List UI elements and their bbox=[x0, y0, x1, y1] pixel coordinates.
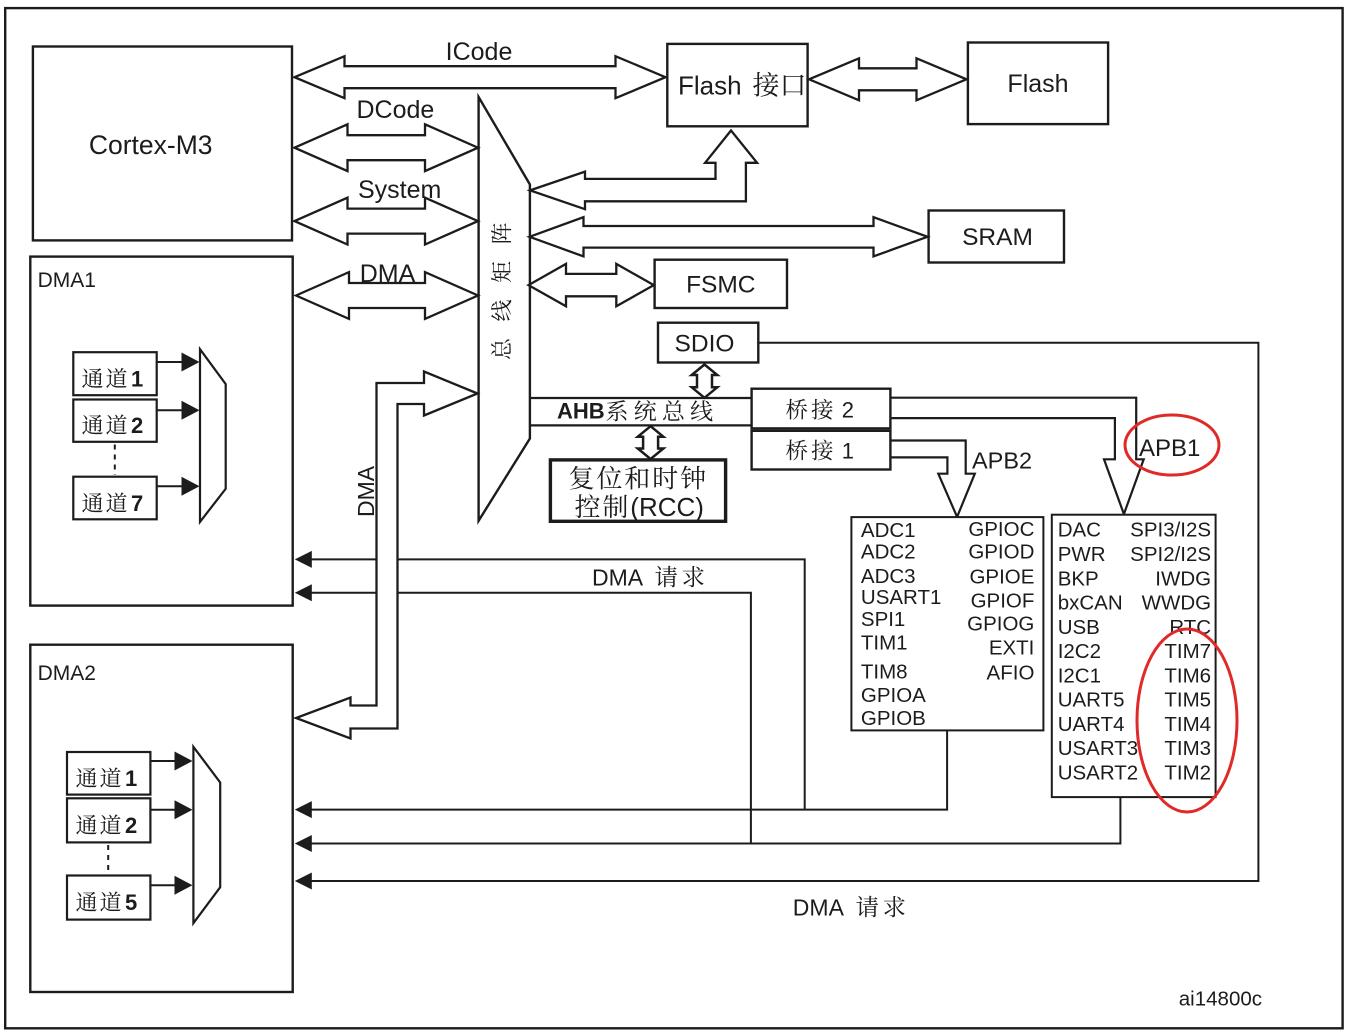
box APB2 peripherals bbox=[851, 517, 1043, 730]
arrow bent DMA bus matrix down to DMA2 bbox=[296, 372, 478, 739]
wire channel2 to mux DMA2 bbox=[150, 809, 175, 811]
box channel1 DMA1 bbox=[73, 352, 156, 395]
svg-text:Cortex-M3: Cortex-M3 bbox=[89, 130, 213, 160]
arrow bus matrix to SRAM bbox=[530, 217, 928, 256]
svg-text:TIM4: TIM4 bbox=[1164, 713, 1211, 736]
label DMA request lower bbox=[793, 895, 845, 921]
svg-text:GPIOE: GPIOE bbox=[969, 565, 1034, 588]
arrowhead into DMA1 line1 bbox=[295, 551, 312, 568]
svg-text:5: 5 bbox=[125, 890, 137, 915]
wire - APB2 peripherals DMA request to DMA2 bbox=[298, 730, 947, 809]
svg-text:DMA: DMA bbox=[360, 260, 416, 288]
svg-text:USART3: USART3 bbox=[1058, 737, 1139, 760]
arrowhead into DMA1 line2 bbox=[295, 584, 312, 601]
box bridge1 bbox=[752, 431, 891, 470]
arrow Flash interface to Flash bbox=[809, 58, 967, 100]
dashed line between DMA2 channels bbox=[107, 845, 109, 874]
svg-text:USART2: USART2 bbox=[1058, 762, 1139, 785]
wire channel2 to mux bbox=[157, 409, 182, 411]
box channel7 DMA1 bbox=[73, 477, 156, 520]
svg-text:TIM5: TIM5 bbox=[1164, 689, 1211, 712]
svg-text:DMA: DMA bbox=[353, 465, 379, 517]
bus matrix trapezoid bbox=[479, 97, 530, 521]
svg-text:System: System bbox=[358, 176, 441, 204]
arrowhead into DMA2 line1 bbox=[295, 801, 312, 818]
APB2 right column labels bbox=[967, 518, 1034, 685]
box Flash bbox=[968, 43, 1108, 125]
arrow vertical SDIO to AHB bus bbox=[692, 365, 718, 398]
arrow vertical AHB bus to RCC bbox=[638, 426, 664, 459]
APB1 left column labels bbox=[1058, 519, 1139, 785]
wire channel1 to mux DMA2 bbox=[150, 760, 175, 762]
arrowhead into DMA2 line3 bbox=[295, 873, 312, 890]
label DMA request upper bbox=[592, 565, 644, 591]
arrowhead into DMA2 line2 bbox=[295, 835, 312, 852]
box channel5 DMA2 bbox=[67, 876, 150, 920]
mux trapezoid DMA2 bbox=[193, 747, 220, 923]
svg-text:APB2: APB2 bbox=[972, 448, 1032, 474]
svg-text:SPI2/I2S: SPI2/I2S bbox=[1130, 543, 1211, 566]
dashed line between DMA1 channels bbox=[114, 445, 116, 476]
svg-text:TIM7: TIM7 bbox=[1164, 640, 1211, 663]
svg-text:WWDG: WWDG bbox=[1142, 592, 1211, 615]
wire channel5 to mux DMA2 bbox=[150, 884, 175, 886]
svg-text:AHB: AHB bbox=[557, 399, 605, 424]
wire - branch up to DMA1 request line 1 bbox=[298, 559, 805, 809]
label DMA vertical bbox=[353, 465, 379, 517]
arrow System Cortex to bus matrix bbox=[295, 198, 479, 245]
svg-text:2: 2 bbox=[131, 413, 143, 438]
svg-text:DMA1: DMA1 bbox=[38, 269, 96, 292]
svg-text:ADC2: ADC2 bbox=[861, 541, 916, 564]
box DMA1 bbox=[30, 257, 292, 606]
arrow ICode Cortex to Flash interface bbox=[295, 56, 666, 98]
APB2 left column labels bbox=[861, 519, 942, 730]
svg-text:BKP: BKP bbox=[1058, 567, 1099, 590]
wire - branch up to DMA1 request line 2 bbox=[298, 593, 751, 844]
wire - APB1 peripherals DMA request to DMA2 bbox=[298, 797, 1120, 843]
wire channel1 to mux bbox=[157, 361, 182, 363]
box FSMC bbox=[655, 260, 787, 308]
svg-text:USART1: USART1 bbox=[861, 586, 942, 609]
box RCC reset and clock control bbox=[550, 460, 725, 521]
svg-text:GPIOC: GPIOC bbox=[968, 518, 1034, 541]
box SRAM bbox=[929, 211, 1064, 263]
svg-text:I2C1: I2C1 bbox=[1058, 664, 1101, 687]
svg-text:DMA: DMA bbox=[793, 895, 845, 921]
box SDIO bbox=[658, 323, 758, 363]
svg-text:ai14800c: ai14800c bbox=[1179, 988, 1262, 1011]
svg-text:Flash: Flash bbox=[1007, 70, 1068, 98]
wire - SDIO to DMA2 request line bbox=[298, 343, 1258, 881]
svg-text:ADC1: ADC1 bbox=[861, 519, 916, 542]
svg-text:GPIOA: GPIOA bbox=[861, 684, 926, 707]
svg-text:TIM2: TIM2 bbox=[1164, 762, 1211, 785]
box bridge2 bbox=[752, 389, 891, 429]
svg-text:UART5: UART5 bbox=[1058, 689, 1125, 712]
svg-text:(RCC): (RCC) bbox=[630, 492, 704, 522]
svg-text:ICode: ICode bbox=[446, 38, 513, 66]
svg-text:TIM8: TIM8 bbox=[861, 661, 908, 684]
svg-text:FSMC: FSMC bbox=[686, 272, 755, 299]
svg-text:SRAM: SRAM bbox=[962, 224, 1033, 251]
svg-text:GPIOG: GPIOG bbox=[967, 612, 1034, 635]
svg-text:ADC3: ADC3 bbox=[861, 565, 916, 588]
svg-text:2: 2 bbox=[125, 813, 137, 838]
label bus matrix vertical bbox=[491, 223, 511, 359]
arrow bus matrix to FSMC bbox=[529, 264, 654, 306]
wire channel7 to mux bbox=[157, 485, 182, 487]
arrow bent bus matrix up to Flash interface bbox=[530, 131, 757, 210]
svg-text:DMA: DMA bbox=[592, 565, 644, 591]
svg-text:APB1: APB1 bbox=[1139, 435, 1200, 462]
svg-text:bxCAN: bxCAN bbox=[1058, 592, 1123, 615]
svg-text:1: 1 bbox=[131, 367, 143, 392]
arrow DCode Cortex to bus matrix bbox=[295, 124, 479, 171]
svg-text:TIM3: TIM3 bbox=[1164, 737, 1211, 760]
svg-text:PWR: PWR bbox=[1058, 543, 1106, 566]
wire+funnel arrow APB1 from bridge2 bbox=[890, 398, 1143, 514]
red ellipse around APB1 label bbox=[1125, 415, 1219, 475]
svg-text:SDIO: SDIO bbox=[675, 331, 735, 358]
box channel2 DMA1 bbox=[73, 400, 156, 442]
box channel1 DMA2 bbox=[67, 752, 150, 795]
box channel2 DMA2 bbox=[67, 798, 150, 842]
svg-text:IWDG: IWDG bbox=[1155, 567, 1211, 590]
arrow DMA DMA1 to bus matrix bbox=[296, 272, 478, 319]
APB1 right column labels bbox=[1130, 519, 1211, 785]
svg-text:USB: USB bbox=[1058, 616, 1100, 639]
svg-text:AFIO: AFIO bbox=[987, 661, 1035, 684]
svg-text:GPIOD: GPIOD bbox=[968, 541, 1034, 564]
svg-text:EXTI: EXTI bbox=[989, 637, 1035, 660]
svg-text:SPI3/I2S: SPI3/I2S bbox=[1130, 519, 1211, 542]
wire+funnel arrow APB2 from bridge1 bbox=[890, 441, 974, 517]
svg-text:GPIOF: GPIOF bbox=[971, 590, 1035, 613]
svg-text:DAC: DAC bbox=[1058, 519, 1101, 542]
svg-text:7: 7 bbox=[131, 491, 143, 516]
box DMA2 bbox=[30, 645, 292, 992]
svg-text:2: 2 bbox=[842, 398, 854, 423]
svg-text:DCode: DCode bbox=[357, 96, 435, 124]
svg-text:UART4: UART4 bbox=[1058, 713, 1125, 736]
AHB system bus lines bbox=[530, 397, 752, 399]
box Cortex-M3 bbox=[33, 47, 292, 241]
box Flash interface bbox=[667, 44, 807, 126]
svg-text:SPI1: SPI1 bbox=[861, 608, 905, 631]
svg-text:Flash: Flash bbox=[678, 71, 742, 101]
box APB1 peripherals bbox=[1052, 515, 1216, 797]
svg-text:1: 1 bbox=[842, 439, 854, 464]
mux trapezoid DMA1 bbox=[200, 349, 226, 522]
svg-text:GPIOB: GPIOB bbox=[861, 707, 926, 730]
svg-text:DMA2: DMA2 bbox=[38, 662, 96, 685]
svg-text:I2C2: I2C2 bbox=[1058, 640, 1101, 663]
svg-text:TIM6: TIM6 bbox=[1164, 664, 1211, 687]
svg-text:TIM1: TIM1 bbox=[861, 632, 908, 655]
red ellipse around TIM2-TIM7 column bbox=[1137, 629, 1237, 812]
svg-text:1: 1 bbox=[125, 766, 137, 791]
